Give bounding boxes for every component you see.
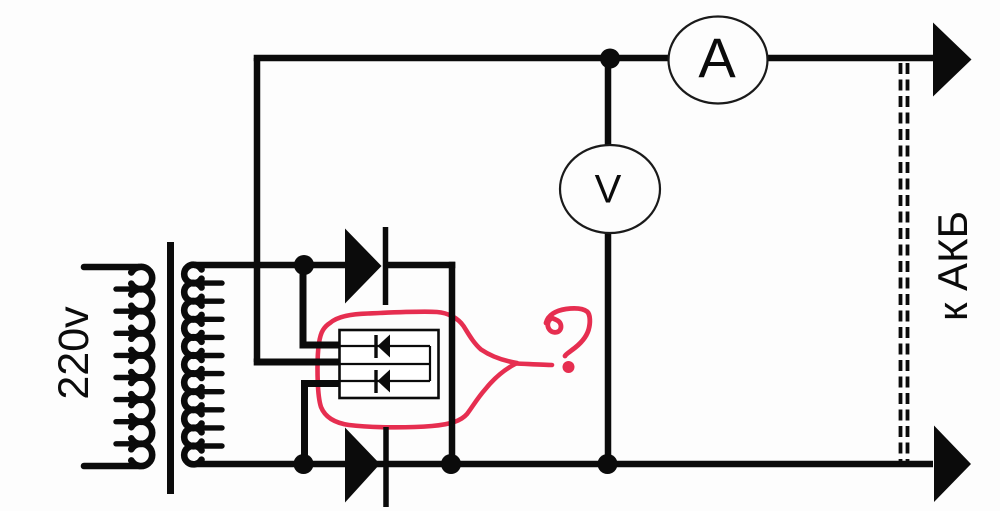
svg-text:A: A xyxy=(698,26,736,89)
bottom rail xyxy=(196,461,933,468)
diode VD1 cathode wire xyxy=(385,262,455,269)
secondary winding xyxy=(184,265,304,465)
red annotation blob around diode module xyxy=(318,312,518,428)
transformer core xyxy=(167,242,174,494)
wire from bottom rail to module bottom pin xyxy=(305,384,340,465)
red question mark stroke xyxy=(546,308,590,356)
junction node at secondary top tap xyxy=(294,255,314,275)
module internal middle lead xyxy=(340,363,431,365)
svg-text:к АКБ: к АКБ xyxy=(929,211,976,321)
red pointer line xyxy=(516,364,552,366)
module diode D2 triangle xyxy=(378,370,391,393)
top wire (plus rail) xyxy=(254,55,933,62)
junction node bottom rail voltmeter xyxy=(598,454,618,474)
voltmeter V xyxy=(560,145,660,233)
ammeter A xyxy=(669,17,768,104)
secondary winding ticks xyxy=(203,283,222,446)
primary winding ticks xyxy=(116,289,132,444)
svg-text:V: V xyxy=(595,168,622,212)
wire from node A to module top pin xyxy=(303,265,339,345)
svg-text:220v: 220v xyxy=(50,306,98,400)
output arrow plus terminal xyxy=(933,23,972,97)
wire to module middle pin xyxy=(254,359,339,366)
red question mark knot loop xyxy=(548,318,561,332)
module internal top lead xyxy=(340,345,431,347)
diode VD1 triangle xyxy=(345,229,382,304)
red question-mark dot xyxy=(563,361,575,373)
diode VD1 cathode bar xyxy=(383,227,389,305)
junction node bottom rail left xyxy=(294,454,314,474)
diode VD2 cathode bar xyxy=(383,427,389,507)
voltmeter branch wire xyxy=(605,58,612,464)
diode module case xyxy=(340,330,439,398)
primary winding (220v side) xyxy=(84,267,152,466)
wire from VD1 cathode down to bottom rail xyxy=(449,262,456,464)
module internal right link xyxy=(429,346,431,381)
diode VD2 triangle xyxy=(345,428,380,503)
module diode D1 triangle xyxy=(378,335,391,358)
left vertical wire from top rail xyxy=(254,58,261,362)
module diode D1 bar xyxy=(374,335,377,358)
junction node top rail / ammeter branch xyxy=(600,49,620,69)
junction node bottom rail middle xyxy=(441,454,461,474)
output arrow minus terminal xyxy=(934,426,971,503)
module internal bottom lead xyxy=(340,380,431,382)
diode VD1 anode wire xyxy=(296,262,346,269)
module diode D2 bar xyxy=(374,370,377,393)
double dashed battery link lines xyxy=(901,63,908,461)
